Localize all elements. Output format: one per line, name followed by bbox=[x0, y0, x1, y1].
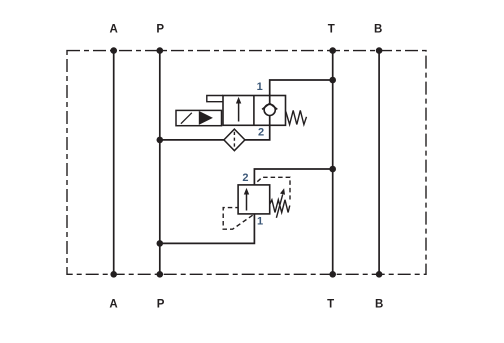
node P bottom bbox=[157, 271, 164, 278]
wire port line P bbox=[159, 51, 161, 275]
node T top bbox=[329, 47, 336, 54]
manifold boundary (dash-dot envelope) bbox=[67, 51, 426, 275]
wire port line A bbox=[113, 51, 115, 275]
node B top bbox=[376, 47, 383, 54]
svg-text:1: 1 bbox=[257, 215, 263, 227]
node T port1 branch bbox=[329, 77, 336, 84]
svg-text:A: A bbox=[109, 299, 117, 311]
solenoid slash bbox=[181, 113, 192, 124]
relief adjustment arrow bbox=[276, 194, 282, 217]
valve spring bbox=[286, 110, 307, 124]
svg-text:P: P bbox=[157, 299, 165, 311]
node B bottom bbox=[376, 271, 383, 278]
svg-text:1: 1 bbox=[257, 81, 263, 93]
wire port line T bbox=[332, 51, 334, 275]
relief vent line (dashed, to spring chamber) bbox=[257, 177, 290, 199]
wire relief port 1 to P bbox=[160, 214, 255, 244]
svg-text:B: B bbox=[375, 299, 383, 311]
filter orifice diamond bbox=[224, 129, 245, 151]
valve flow arrow bbox=[238, 102, 240, 122]
check valve flow line bbox=[269, 96, 271, 126]
relief pilot line (dashed, from port 1 to spool) bbox=[223, 208, 252, 230]
node T bottom bbox=[329, 271, 336, 278]
svg-text:T: T bbox=[327, 299, 334, 311]
valve body 2-position box bbox=[223, 96, 286, 126]
check valve ball bbox=[264, 104, 275, 115]
solenoid triangle bbox=[199, 111, 213, 125]
node P top bbox=[157, 47, 164, 54]
node A bottom bbox=[110, 271, 117, 278]
svg-text:T: T bbox=[328, 24, 335, 36]
svg-text:2: 2 bbox=[242, 172, 248, 184]
node T relief branch bbox=[329, 166, 336, 173]
wire valve port 1 to T bbox=[270, 80, 333, 96]
relief valve box bbox=[238, 185, 270, 214]
check valve seat bbox=[262, 103, 277, 109]
svg-text:P: P bbox=[156, 24, 164, 36]
filter dashed center line bbox=[233, 132, 235, 148]
wire port line B bbox=[378, 51, 380, 275]
svg-text:B: B bbox=[374, 24, 382, 36]
valve second-position tab bbox=[207, 96, 223, 102]
solenoid actuator box bbox=[176, 110, 222, 125]
svg-text:A: A bbox=[110, 24, 118, 36]
node P filter branch bbox=[157, 137, 164, 144]
relief spring bbox=[270, 200, 290, 213]
relief valve flow arrow bbox=[246, 193, 248, 211]
node P relief branch bbox=[157, 240, 164, 247]
wire relief port 2 to T bbox=[254, 169, 332, 185]
valve body divider bbox=[253, 96, 255, 126]
svg-text:2: 2 bbox=[258, 126, 264, 138]
wire valve port 2 to filter bbox=[245, 125, 270, 140]
wire filter to P bbox=[160, 139, 224, 141]
node A top bbox=[110, 47, 117, 54]
